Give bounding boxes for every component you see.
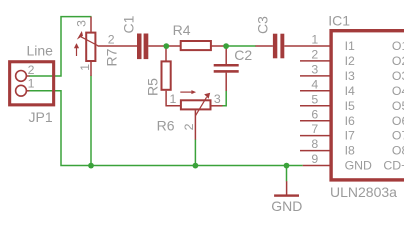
svg-text:1: 1 [311,33,318,47]
svg-text:GND: GND [345,159,372,173]
svg-text:3: 3 [214,92,221,106]
svg-text:5: 5 [311,92,318,106]
svg-text:O7: O7 [392,129,404,143]
svg-text:I1: I1 [345,39,355,53]
svg-text:C2: C2 [234,47,252,63]
svg-text:R6: R6 [157,117,175,133]
svg-text:2: 2 [28,63,35,77]
svg-text:O3: O3 [392,69,404,83]
svg-text:I7: I7 [345,129,355,143]
svg-text:O2: O2 [392,54,404,68]
svg-text:Line: Line [27,42,54,58]
svg-text:O5: O5 [392,99,404,113]
svg-text:2: 2 [182,123,196,130]
svg-text:R7: R7 [103,48,119,66]
svg-text:JP1: JP1 [29,109,53,125]
svg-text:I3: I3 [345,69,355,83]
svg-text:C1: C1 [121,15,137,33]
svg-text:3: 3 [311,63,318,77]
svg-text:I4: I4 [345,84,355,98]
svg-text:6: 6 [311,107,318,121]
svg-text:1: 1 [78,64,92,71]
svg-text:GND: GND [271,198,302,214]
svg-text:8: 8 [311,137,318,151]
svg-text:7: 7 [311,122,318,136]
svg-text:1: 1 [28,77,35,91]
svg-text:R5: R5 [144,78,160,96]
svg-text:IC1: IC1 [328,12,350,28]
svg-text:I5: I5 [345,99,355,113]
svg-text:I2: I2 [345,54,355,68]
svg-text:O4: O4 [392,84,404,98]
svg-text:O6: O6 [392,114,404,128]
svg-text:I6: I6 [345,114,355,128]
svg-text:C3: C3 [254,16,270,34]
svg-text:R4: R4 [173,22,191,38]
svg-text:I8: I8 [345,144,355,158]
svg-text:O1: O1 [392,39,404,53]
svg-text:2: 2 [108,33,115,47]
svg-text:ULN2803a: ULN2803a [330,184,397,200]
svg-text:O8: O8 [392,144,404,158]
svg-text:1: 1 [170,92,177,106]
svg-text:3: 3 [75,20,89,27]
svg-text:4: 4 [311,77,318,91]
svg-text:9: 9 [311,152,318,166]
svg-text:CD+: CD+ [383,159,404,173]
svg-text:2: 2 [311,48,318,62]
